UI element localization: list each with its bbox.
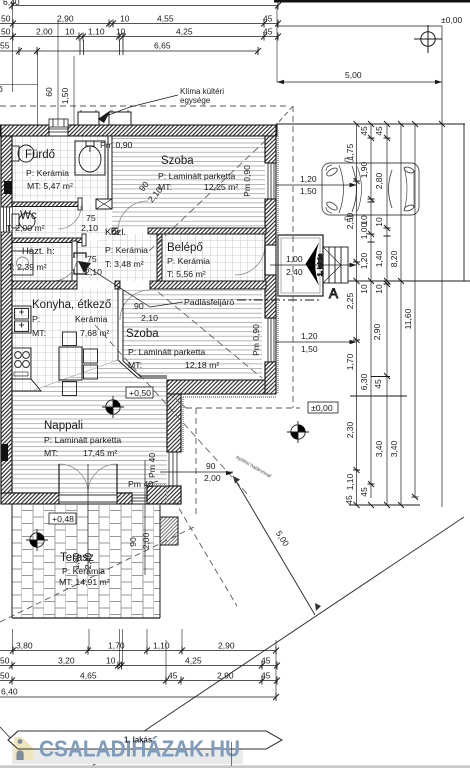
svg-text:2,80: 2,80 xyxy=(374,172,384,189)
tick line at y505 bottom xyxy=(349,504,420,506)
eave vertical at terrace xyxy=(195,408,197,518)
svg-text:Pm 0,90: Pm 0,90 xyxy=(251,324,261,356)
svg-text:11,60: 11,60 xyxy=(403,308,413,329)
banner vertical mark xyxy=(231,742,233,766)
svg-text:Pm 0,90: Pm 0,90 xyxy=(100,140,133,150)
entry door leaf and arc xyxy=(235,245,265,275)
terrace edge lines xyxy=(159,505,161,618)
90/2,00 dim to plot corner xyxy=(160,471,233,473)
svg-text:Klíma kültéri: Klíma kültéri xyxy=(180,87,224,96)
eave line top xyxy=(0,105,287,107)
AC feet xyxy=(81,110,128,112)
Szoba1 parquet floor xyxy=(112,136,265,228)
svg-text:6,30: 6,30 xyxy=(359,373,369,390)
svg-text:1,10: 1,10 xyxy=(153,641,170,651)
SE vertical wall piece xyxy=(167,380,181,452)
svg-text:2,40: 2,40 xyxy=(83,552,93,569)
svg-text:10: 10 xyxy=(116,27,126,37)
svg-text:1,10: 1,10 xyxy=(345,473,355,490)
svg-text:P: Laminált parketta: P: Laminált parketta xyxy=(128,347,205,357)
extension line x58 xyxy=(57,20,59,126)
stove xyxy=(12,348,31,379)
bottom edge gray strip xyxy=(0,765,470,768)
svg-text:T: 2,00 m²: T: 2,00 m² xyxy=(6,223,45,233)
parking area bottom line xyxy=(348,280,470,282)
banner hexagon xyxy=(8,731,282,749)
AC unit 2 xyxy=(109,112,131,125)
svg-text:±0,00: ±0,00 xyxy=(311,403,333,413)
svg-text:12,18 m²: 12,18 m² xyxy=(185,360,219,370)
ticks row3 xyxy=(10,33,281,41)
svg-text:1,20: 1,20 xyxy=(301,331,318,341)
svg-text:2,90: 2,90 xyxy=(218,641,235,651)
svg-text:3,20: 3,20 xyxy=(58,656,75,666)
kitchen counter end xyxy=(12,379,41,391)
extension line x37.5 xyxy=(37,51,39,126)
svg-text:+0,50: +0,50 xyxy=(129,388,151,398)
svg-text:2,40: 2,40 xyxy=(286,267,303,277)
extension line x74 xyxy=(73,56,75,126)
car top view xyxy=(322,158,419,220)
Házt. h. ceramic floor xyxy=(12,241,72,281)
svg-text:Belépő: Belépő xyxy=(167,242,203,254)
svg-text:17,45 m²: 17,45 m² xyxy=(83,448,117,458)
svg-text:45: 45 xyxy=(344,495,354,505)
svg-text:Kerámia: Kerámia xyxy=(75,314,108,324)
bottom dim row 1 xyxy=(0,650,276,652)
svg-text:10: 10 xyxy=(106,656,116,666)
bottom dim row 2 xyxy=(0,665,277,667)
Konyha ceramic floor xyxy=(12,289,118,390)
svg-text:egysége: egysége xyxy=(180,96,211,105)
svg-text:T: 2,39 m²: T: 2,39 m² xyxy=(8,262,47,272)
row1 ticks xyxy=(10,647,279,655)
svg-text:45: 45 xyxy=(359,487,369,497)
entrance steps xyxy=(323,247,348,283)
svg-text:Wc: Wc xyxy=(20,210,37,222)
entrance porch outline xyxy=(278,235,323,296)
svg-text:45: 45 xyxy=(374,126,384,136)
svg-text:Padlásfeljáró: Padlásfeljáró xyxy=(184,297,234,307)
svg-text:1,20: 1,20 xyxy=(300,174,317,184)
svg-text:45: 45 xyxy=(261,656,271,666)
SE corner pillar xyxy=(147,486,181,504)
svg-text:Pm 40: Pm 40 xyxy=(128,479,153,489)
Szoba1 south wall with door xyxy=(112,228,266,234)
section line A xyxy=(237,299,322,301)
row3 ticks xyxy=(9,677,280,685)
plot boundary diagonal to watermark xyxy=(89,517,464,768)
svg-text:45: 45 xyxy=(359,126,369,136)
kitchen/living floor break line xyxy=(34,360,118,390)
svg-text:2,25: 2,25 xyxy=(345,292,355,309)
Terasz paving xyxy=(12,505,160,618)
dashed diagonal SW xyxy=(0,526,196,622)
tick line at y395 (south wall) xyxy=(350,395,407,397)
extension line left xyxy=(12,6,14,93)
svg-text:1,20: 1,20 xyxy=(359,252,369,269)
radiator niche left wall lower xyxy=(2,444,9,461)
bottom labels xyxy=(0,641,271,697)
svg-text:45: 45 xyxy=(373,379,383,389)
bathroom window in top wall xyxy=(49,119,68,132)
datum vertical at ±0,00 xyxy=(441,26,443,507)
terrace pillar xyxy=(160,517,178,545)
terrace french door frame xyxy=(59,495,117,502)
leader 1,00/2,40 door xyxy=(270,254,357,277)
Klíma kültéri egysége label xyxy=(180,87,224,105)
svg-text:2,90: 2,90 xyxy=(372,323,382,340)
svg-text:MT: 5,47 m²: MT: 5,47 m² xyxy=(27,181,73,191)
door arc Házt xyxy=(53,258,77,281)
bottom dim row 3 xyxy=(0,680,277,682)
svg-text:45: 45 xyxy=(261,671,271,681)
svg-text:1,80: 1,80 xyxy=(71,552,81,569)
tick y497 on V5 xyxy=(412,496,419,498)
south wall of Házt/Közl/Belépő row xyxy=(12,281,266,289)
ticks row1 xyxy=(9,2,281,10)
+0,50 level box xyxy=(126,387,153,398)
rotated chain labels V3 xyxy=(372,126,384,457)
svg-text:1. lakás: 1. lakás xyxy=(124,736,153,745)
Szoba2 parquet floor xyxy=(123,290,262,376)
+0,48 level box xyxy=(49,513,76,524)
±0,00 level box right xyxy=(308,402,338,413)
5,00 dimension line xyxy=(277,70,442,84)
svg-text:8,20: 8,20 xyxy=(389,250,399,267)
leader line for cut label xyxy=(0,84,38,86)
svg-text:7,68 m²: 7,68 m² xyxy=(80,328,110,338)
chain V2 xyxy=(370,124,372,498)
svg-text:75: 75 xyxy=(86,213,96,223)
svg-text:MT:: MT: xyxy=(44,448,58,458)
svg-text:45: 45 xyxy=(263,27,273,37)
svg-text:P:: P: xyxy=(32,314,40,324)
watermark gray bar xyxy=(12,737,243,764)
svg-text:75: 75 xyxy=(87,254,97,264)
svg-text:90: 90 xyxy=(128,537,138,547)
svg-text:P: Kerámia: P: Kerámia xyxy=(105,245,148,255)
eave NE hip xyxy=(277,106,293,124)
svg-text:60: 60 xyxy=(44,87,54,97)
Fürdő ceramic floor xyxy=(12,136,108,199)
leader 1,20/1,50 window1 xyxy=(276,174,357,196)
svg-text:Nappali: Nappali xyxy=(44,420,83,432)
svg-text:2,50: 2,50 xyxy=(345,212,355,229)
svg-text:T: 5,56 m²: T: 5,56 m² xyxy=(167,269,206,279)
svg-text:1,50: 1,50 xyxy=(60,87,70,104)
roof line in Nappali xyxy=(95,325,250,497)
svg-text:1,00: 1,00 xyxy=(286,254,303,264)
Belépő ceramic floor xyxy=(162,234,265,281)
watermark banner 1. lakás xyxy=(0,731,470,768)
top dim row 1 (6,40) xyxy=(12,5,278,7)
svg-text:1. lakás: 1. lakás xyxy=(317,253,324,276)
dashed diagonal to plot corner xyxy=(174,500,237,606)
Szoba2 south outer wall xyxy=(167,380,276,394)
svg-text:3,80: 3,80 xyxy=(16,641,33,651)
svg-text:2,00: 2,00 xyxy=(36,27,53,37)
svg-text:6,65: 6,65 xyxy=(154,41,171,51)
chair bottom xyxy=(63,382,77,396)
svg-text:2,00: 2,00 xyxy=(204,473,221,483)
wall Fürdő/WC with door xyxy=(12,198,82,210)
svg-text:Pm 0,90: Pm 0,90 xyxy=(242,165,252,197)
wall Közl/Belépő xyxy=(157,234,162,281)
svg-text:1,50: 1,50 xyxy=(300,186,317,196)
svg-text:50: 50 xyxy=(0,656,10,666)
logo square pale yellow xyxy=(14,737,33,760)
roof hip in Szoba2 xyxy=(158,292,262,378)
terrace right vertical dim line xyxy=(144,460,146,575)
window Pm 0,90 in right wall (Szoba1) xyxy=(266,163,276,199)
small cross at banner left tip xyxy=(0,727,28,757)
svg-text:2,10: 2,10 xyxy=(141,313,158,323)
svg-text:MT: 14,91 m²: MT: 14,91 m² xyxy=(59,577,110,587)
svg-text:2,00: 2,00 xyxy=(141,532,151,549)
svg-text:45: 45 xyxy=(263,14,273,24)
ticks row4 xyxy=(16,47,261,55)
Közl. ceramic floor xyxy=(77,241,157,281)
top dim row 3 xyxy=(0,36,278,38)
chain V3 xyxy=(386,124,388,505)
svg-text:+0,48: +0,48 xyxy=(52,514,74,524)
door arc Fürdő->WC xyxy=(58,206,81,229)
datum line to ±0,00 xyxy=(277,25,442,27)
rotated chain labels V2 xyxy=(359,126,369,497)
Nappali parquet floor xyxy=(12,361,167,493)
extension line right x277 xyxy=(276,6,278,83)
top black border line xyxy=(274,0,470,3)
wall WC/Házt xyxy=(12,234,86,246)
svg-text:Szoba: Szoba xyxy=(161,155,194,167)
dining table xyxy=(59,347,82,380)
plaster stipple along SE exterior xyxy=(146,130,278,503)
door arc Közl->Szoba2 xyxy=(120,290,150,320)
wall Konyha/Szoba2 xyxy=(118,289,123,361)
svg-text:1,10: 1,10 xyxy=(88,27,105,37)
svg-text:3,40: 3,40 xyxy=(389,440,399,457)
parking area top line xyxy=(276,123,465,125)
svg-text:10: 10 xyxy=(359,284,369,294)
ticks row2 xyxy=(10,20,281,28)
top dim row 4 xyxy=(0,50,258,52)
logo person body xyxy=(17,750,24,760)
chimney block xyxy=(96,199,112,209)
svg-text:2,10: 2,10 xyxy=(85,267,102,277)
svg-text:Szoba: Szoba xyxy=(126,328,159,340)
bottom dim row 4 xyxy=(0,696,276,698)
parking area right line xyxy=(463,124,465,281)
rotated labels 60 and 1,50 xyxy=(44,87,70,104)
benchmark crosshair xyxy=(414,25,442,53)
svg-text:10: 10 xyxy=(120,14,130,24)
svg-text:P: Kerámia: P: Kerámia xyxy=(167,256,210,266)
svg-text:50: 50 xyxy=(0,671,10,681)
survey marker right xyxy=(287,421,309,443)
svg-text:1,50: 1,50 xyxy=(301,344,318,354)
svg-text:4,65: 4,65 xyxy=(80,671,97,681)
svg-text:3,40: 3,40 xyxy=(374,440,384,457)
svg-text:2,30: 2,30 xyxy=(345,421,355,438)
plot diagonal 5,00 xyxy=(233,476,315,615)
row2 ticks xyxy=(9,662,280,670)
chair right 1 xyxy=(84,349,98,363)
chain V4 xyxy=(400,124,402,505)
chain V5 xyxy=(414,124,416,497)
svg-text:MT:: MT: xyxy=(32,328,46,338)
extension doubles below row3 tens xyxy=(80,40,123,55)
survey marker kitchen xyxy=(102,396,124,418)
door arc Közl->Szoba1 xyxy=(118,201,148,231)
rotated chain labels V4 xyxy=(389,250,399,457)
svg-text:12,25 m²: 12,25 m² xyxy=(204,182,238,192)
WC window in left wall xyxy=(1,207,12,232)
logo person head xyxy=(18,739,23,744)
SE corner window Pm 40 xyxy=(167,452,181,486)
toilet WC xyxy=(12,213,35,229)
chair right 2 xyxy=(84,365,98,379)
svg-text:1,90: 1,90 xyxy=(359,161,369,178)
kitchen sink unit xyxy=(12,306,31,333)
chain V1 xyxy=(356,124,358,505)
svg-text:50: 50 xyxy=(1,27,11,37)
svg-text:55: 55 xyxy=(0,41,10,51)
top outer wall xyxy=(0,125,277,136)
svg-text:±0,00: ±0,00 xyxy=(441,15,462,25)
washing machine Házt xyxy=(12,251,33,275)
svg-text:1,00: 1,00 xyxy=(359,222,369,239)
svg-text:Házt. h:: Házt. h: xyxy=(22,246,55,257)
WC ceramic floor xyxy=(12,204,98,236)
svg-text:4,25: 4,25 xyxy=(185,656,202,666)
wall Házt/Közl with door xyxy=(72,241,77,284)
chain ticks xyxy=(353,135,391,487)
AC unit 1 xyxy=(78,112,99,125)
svg-text:10: 10 xyxy=(374,217,384,227)
attic hatch brackets xyxy=(74,253,86,274)
bottom slashes xyxy=(354,494,419,508)
svg-text:4,25: 4,25 xyxy=(176,27,193,37)
svg-text:Közl.: Közl. xyxy=(105,227,126,238)
right outer wall upper xyxy=(265,125,276,394)
svg-text:6,40: 6,40 xyxy=(1,687,18,697)
toilet Fürdő xyxy=(12,145,34,162)
svg-text:2,10: 2,10 xyxy=(81,223,98,233)
svg-text:45: 45 xyxy=(168,671,178,681)
terrace french door arcs xyxy=(59,464,88,493)
wall Fürdő/Szoba1 xyxy=(108,136,112,204)
window Pm 0,90 in right wall (Szoba2) xyxy=(266,318,276,362)
svg-text:Fürdő: Fürdő xyxy=(25,149,55,161)
svg-text:ő: ő xyxy=(0,84,3,94)
svg-text:MT:: MT: xyxy=(128,360,142,370)
entrance direction arrow (solid) xyxy=(306,243,320,286)
chair top xyxy=(63,332,77,346)
bottom window Pm 40 xyxy=(132,493,147,504)
roof hip in Szoba1 xyxy=(148,140,266,252)
svg-text:10: 10 xyxy=(374,284,384,294)
rotated chain labels V1 xyxy=(344,143,355,504)
chamfer wall Szoba2 SW xyxy=(118,360,167,378)
top dim labels xyxy=(0,0,273,51)
Pm 40 marker line xyxy=(148,481,158,484)
tick y281 slashes xyxy=(354,278,405,284)
logo white roof notch xyxy=(22,737,34,748)
svg-text:4,55: 4,55 xyxy=(157,14,174,24)
svg-text:1,40: 1,40 xyxy=(374,250,384,267)
svg-text:6,40: 6,40 xyxy=(3,0,20,7)
Klíma leader arrow xyxy=(98,95,178,123)
eave line SE bottom xyxy=(186,407,300,409)
terrace door center line + labels 1,80 2,40 xyxy=(87,464,89,575)
left outer wall xyxy=(1,125,12,504)
svg-text:1,70: 1,70 xyxy=(345,353,355,370)
survey marker terrace xyxy=(26,529,48,551)
svg-text:10: 10 xyxy=(65,27,75,37)
bottom wall of Nappali xyxy=(1,493,147,504)
svg-text:5,00: 5,00 xyxy=(345,70,362,80)
svg-text:A: A xyxy=(329,286,338,301)
radiator niche in left wall xyxy=(4,181,12,194)
svg-text:1,75: 1,75 xyxy=(345,143,355,160)
eave line right xyxy=(292,106,294,408)
svg-text:2,90: 2,90 xyxy=(217,671,234,681)
porch inner line xyxy=(281,238,320,293)
row4 ticks xyxy=(273,693,279,701)
top dim row 2 xyxy=(0,23,278,25)
svg-text:90: 90 xyxy=(206,461,216,471)
svg-text:T: 3,48 m²: T: 3,48 m² xyxy=(105,259,144,269)
banner outline redraw over logo xyxy=(8,731,282,749)
bottom extension lines xyxy=(12,629,14,651)
washbasin Fürdő xyxy=(75,141,105,175)
svg-text:Pm 40: Pm 40 xyxy=(147,453,157,478)
svg-text:50: 50 xyxy=(1,14,11,24)
svg-text:P: Kerámia: P: Kerámia xyxy=(26,168,69,178)
leader 1,20/1,50 window2 xyxy=(276,331,357,354)
top tick slashes at y124 xyxy=(354,121,446,127)
eave SE hip short xyxy=(170,394,186,408)
svg-text:Konyha, étkező: Konyha, étkező xyxy=(32,299,111,311)
svg-text:P: Laminált parketta: P: Laminált parketta xyxy=(158,171,235,181)
svg-text:2,90: 2,90 xyxy=(57,14,74,24)
svg-text:P: Laminált parketta: P: Laminált parketta xyxy=(44,435,121,445)
